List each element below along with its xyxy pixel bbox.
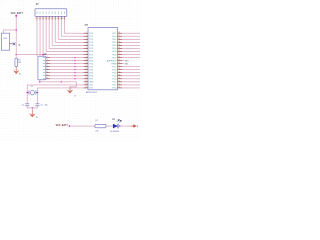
svg-text:P0.7: P0.7	[113, 57, 117, 59]
wire	[50, 72, 84, 74]
U1 right pin 34	[118, 44, 122, 46]
svg-text:28: 28	[118, 62, 120, 64]
svg-text:25: 25	[118, 71, 120, 73]
svg-text:P3.0: P3.0	[89, 60, 93, 62]
wire to edge	[122, 53, 140, 55]
svg-text:13: 13	[86, 68, 88, 70]
U1 right pin 33	[118, 47, 122, 49]
U1 left pin 3	[84, 38, 88, 40]
U1 left pin 5	[84, 44, 88, 46]
svg-text:P2.5: P2.5	[113, 73, 117, 75]
no-connect X on battery pin	[10, 43, 13, 45]
svg-text:30: 30	[118, 56, 120, 58]
U1 right pin 35	[118, 41, 122, 43]
U1 right pin 36	[118, 38, 122, 40]
svg-text:BL-B4134: BL-B4134	[110, 131, 120, 133]
resistor R1	[15, 54, 17, 56]
U1 right pin 37	[118, 35, 122, 37]
svg-text:9: 9	[60, 18, 61, 20]
J1 pin 8	[57, 11, 60, 14]
svg-text:J?: J?	[36, 3, 39, 6]
svg-text:30p: 30p	[45, 104, 48, 106]
svg-text:21: 21	[118, 83, 120, 85]
J1 pin 3	[42, 11, 45, 14]
svg-text:NT1: NT1	[125, 63, 128, 65]
svg-text:0: 0	[75, 96, 76, 98]
svg-text:14: 14	[86, 71, 88, 73]
ground	[69, 87, 71, 91]
svg-text:P0.2: P0.2	[113, 42, 117, 44]
svg-text:P2.1: P2.1	[113, 85, 117, 87]
U1 left pin 12	[84, 66, 88, 68]
RP1 pin 2	[43, 59, 45, 62]
RP1 pin 1	[43, 56, 45, 59]
wire	[50, 66, 84, 68]
capacitor C2	[35, 103, 39, 105]
U1 left pin 16	[84, 78, 88, 80]
U1 left pin 10	[84, 60, 88, 62]
svg-text:P3.1: P3.1	[89, 63, 93, 65]
U1 left pin 7	[84, 50, 88, 52]
U1 left pin 14	[84, 72, 88, 74]
wire VCC vertical	[15, 17, 17, 55]
svg-text:P3.4: P3.4	[89, 73, 93, 75]
svg-text:P1.2: P1.2	[89, 39, 93, 41]
wire to edge	[122, 87, 140, 89]
RP1 pin 3	[43, 62, 45, 65]
wire	[70, 125, 95, 127]
U1 right pin 28	[118, 63, 122, 65]
U1 left pin 19	[84, 87, 88, 89]
svg-text:36: 36	[118, 38, 120, 40]
svg-text:7: 7	[54, 18, 55, 20]
svg-text:17: 17	[86, 80, 88, 82]
wire to edge	[122, 78, 140, 80]
svg-text:8: 8	[57, 18, 58, 20]
wire to edge	[122, 57, 140, 59]
U1 right pin 30	[118, 57, 122, 59]
svg-text:P1.6: P1.6	[89, 51, 93, 53]
junction VCC at staircase	[42, 54, 44, 56]
svg-text:10: 10	[62, 18, 64, 20]
wire	[50, 75, 84, 77]
J1 pin 4	[45, 11, 48, 14]
svg-text:P2.6: P2.6	[113, 69, 117, 71]
J1 pin 5	[48, 11, 51, 14]
wire crystal right	[36, 88, 38, 104]
U1 left pin 17	[84, 81, 88, 83]
svg-text:C2: C2	[40, 104, 42, 106]
svg-text:P1.5: P1.5	[89, 48, 93, 50]
short net stub	[122, 63, 124, 65]
ground	[31, 110, 33, 114]
svg-text:VCC: VCC	[112, 33, 117, 35]
wire to edge	[122, 47, 140, 49]
svg-text:VCC_BATT: VCC_BATT	[11, 12, 24, 15]
svg-text:P0.3: P0.3	[113, 45, 117, 47]
U1 right pin 23	[118, 78, 122, 80]
short net stub	[122, 60, 124, 62]
svg-text:XT2: XT2	[89, 85, 92, 87]
svg-text:P1.1: P1.1	[89, 36, 93, 38]
svg-text:24: 24	[118, 74, 120, 76]
svg-text:ALE/PROG: ALE/PROG	[107, 59, 117, 62]
svg-text:32: 32	[118, 50, 120, 52]
svg-text:29: 29	[118, 59, 120, 61]
J1 pin 10	[63, 11, 66, 14]
svg-text:GND: GND	[89, 82, 94, 84]
svg-text:34: 34	[118, 44, 120, 46]
svg-text:P2.3: P2.3	[113, 79, 117, 81]
wires caps to ground	[26, 106, 28, 108]
junction	[15, 29, 17, 31]
J1 pin 2	[39, 11, 42, 14]
svg-text:27: 27	[118, 65, 120, 67]
svg-text:35: 35	[118, 41, 120, 43]
staircase wires J1 pins 3-10 to U1	[42, 20, 44, 55]
RP1 pin 4	[43, 65, 45, 68]
svg-text:0: 0	[36, 117, 37, 119]
svg-text:4: 4	[44, 18, 45, 20]
svg-text:220: 220	[95, 131, 98, 133]
wire crystal left	[26, 85, 28, 104]
svg-text:P2.7: P2.7	[113, 66, 117, 68]
svg-text:37: 37	[118, 35, 120, 37]
wire to edge	[122, 66, 140, 68]
svg-text:P2.0: P2.0	[113, 88, 117, 90]
svg-text:18: 18	[86, 83, 88, 85]
svg-text:10k: 10k	[18, 62, 21, 64]
U1 right pin 27	[118, 66, 122, 68]
svg-text:38: 38	[118, 32, 120, 34]
wire GND row	[40, 81, 77, 83]
U1 right pin 21	[118, 84, 122, 86]
svg-text:33: 33	[118, 47, 120, 49]
svg-text:C1: C1	[22, 104, 24, 106]
RP1 pin 5	[43, 68, 45, 71]
svg-text:23: 23	[118, 77, 120, 79]
U1 right pin 31	[118, 53, 122, 55]
U1 right pin 29	[118, 60, 122, 62]
U1 right pin 22	[118, 81, 122, 83]
battery BT1	[1, 33, 9, 50]
U1 right pin 32	[118, 50, 122, 52]
ground	[15, 67, 17, 71]
wire	[50, 69, 84, 71]
wire to edge	[122, 44, 140, 46]
svg-text:VCC_BATT: VCC_BATT	[56, 124, 69, 127]
svg-text:P0.1: P0.1	[113, 39, 117, 41]
wire J1 pin1 down	[36, 20, 38, 56]
U1 left pin 8	[84, 53, 88, 55]
wire	[50, 57, 84, 59]
svg-text:20: 20	[118, 86, 120, 88]
svg-text:22: 22	[118, 80, 120, 82]
svg-text:P2.2: P2.2	[113, 82, 117, 84]
wire J1 pin2 down	[39, 20, 41, 56]
wire to edge	[122, 72, 140, 74]
wire to edge	[122, 81, 140, 83]
svg-text:P1.0: P1.0	[89, 33, 93, 35]
U1 left pin 15	[84, 75, 88, 77]
svg-text:P3.3: P3.3	[89, 69, 93, 71]
wire	[50, 60, 84, 62]
RP1 pin 8	[43, 78, 45, 81]
U1 left pin 9	[84, 57, 88, 59]
J1 pin 6	[51, 11, 54, 14]
svg-text:5: 5	[47, 18, 48, 20]
svg-text:P1.7: P1.7	[89, 54, 93, 56]
J1 pin 7	[54, 11, 57, 14]
U1 left pin 2	[84, 35, 88, 37]
svg-text:P0.6: P0.6	[113, 54, 117, 56]
svg-text:XT1: XT1	[89, 88, 92, 90]
wire to edge	[122, 50, 140, 52]
svg-text:19: 19	[86, 86, 88, 88]
wire	[106, 125, 113, 127]
U1 right pin 38	[118, 32, 122, 34]
wire to edge	[122, 69, 140, 71]
svg-text:P1.4: P1.4	[89, 45, 93, 47]
U1 left pin 11	[84, 63, 88, 65]
J1 pin 1	[36, 11, 39, 14]
wire to edge	[122, 32, 140, 34]
svg-text:P: P	[19, 43, 21, 47]
svg-text:6: 6	[51, 18, 52, 20]
U1 right pin 26	[118, 69, 122, 71]
svg-text:P3.2: P3.2	[89, 66, 93, 68]
U1 left pin 6	[84, 47, 88, 49]
U1 right pin 20	[118, 87, 122, 89]
svg-text:P3.5: P3.5	[89, 76, 93, 78]
J1 pin 9	[60, 11, 63, 14]
wire to edge	[122, 75, 140, 77]
svg-text:0: 0	[19, 73, 20, 75]
wire	[50, 78, 84, 80]
U1 left pin 1	[84, 32, 88, 34]
wire	[50, 63, 84, 65]
RP1 pin 7	[43, 74, 45, 77]
svg-text:AT89C2051: AT89C2051	[86, 91, 98, 94]
capacitor C1	[25, 103, 29, 105]
U1 right pin 25	[118, 72, 122, 74]
U1 left pin 4	[84, 41, 88, 43]
wire VCC to staircase	[16, 54, 43, 56]
svg-text:12: 12	[86, 65, 88, 67]
svg-text:P0.4: P0.4	[113, 48, 117, 50]
wire to battery	[3, 29, 16, 31]
wire	[118, 125, 131, 127]
U1 left pin 18	[84, 84, 88, 86]
svg-text:31: 31	[118, 53, 120, 55]
svg-text:16: 16	[86, 77, 88, 79]
wire to edge	[122, 35, 140, 37]
RP1 pin 6	[43, 71, 45, 74]
wire to edge	[122, 84, 140, 86]
U1 right pin 24	[118, 75, 122, 77]
svg-text:P3.7: P3.7	[89, 79, 93, 81]
U1 left pin 13	[84, 69, 88, 71]
wire to edge	[122, 41, 140, 43]
svg-text:P2.4: P2.4	[113, 76, 117, 78]
svg-text:15: 15	[86, 74, 88, 76]
wire to edge	[122, 38, 140, 40]
svg-text:11: 11	[86, 62, 88, 64]
svg-text:P0.5: P0.5	[113, 51, 117, 53]
svg-text:P0.0: P0.0	[113, 36, 117, 38]
power arrow right	[131, 125, 134, 127]
svg-text:P1.3: P1.3	[89, 42, 93, 44]
svg-text:26: 26	[118, 68, 120, 70]
svg-text:PSEN: PSEN	[111, 63, 117, 65]
svg-text:NT0: NT0	[125, 60, 128, 62]
svg-text:10: 10	[86, 59, 88, 61]
svg-text:U?: U?	[85, 24, 89, 27]
